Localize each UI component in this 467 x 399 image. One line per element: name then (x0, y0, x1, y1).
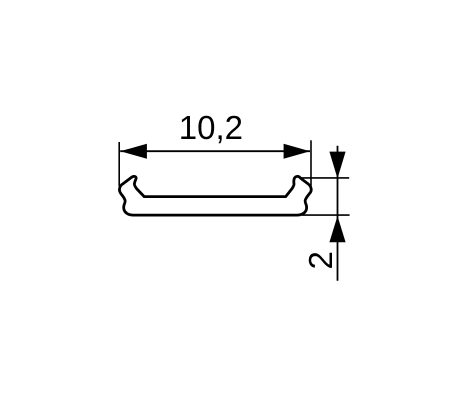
arrowhead up (329, 216, 345, 242)
svg-text:10,2: 10,2 (179, 109, 243, 146)
svg-text:2: 2 (302, 251, 339, 269)
arrowhead right (284, 144, 310, 159)
extension line right (10,2) (310, 140, 312, 186)
arrowhead left (120, 144, 146, 159)
arrowhead down (329, 152, 345, 179)
extension line bottom (2) (302, 214, 350, 216)
extension line left (10,2) (118, 142, 120, 186)
profile cross-section outline (119, 176, 311, 215)
vertical dimension line 2 (337, 146, 339, 281)
extension line top (2) (300, 177, 350, 179)
dimension line 10,2 (120, 150, 310, 152)
